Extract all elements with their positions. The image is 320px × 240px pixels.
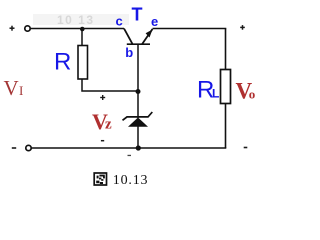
input - terminal circle xyxy=(26,145,31,150)
zener cathode bar with bent ends xyxy=(123,112,153,120)
svg-text:T: T xyxy=(132,5,143,25)
svg-text:10.13: 10.13 xyxy=(113,173,149,188)
bottom rail xyxy=(32,147,227,149)
svg-text:I: I xyxy=(19,83,23,98)
svg-text:L: L xyxy=(212,87,219,101)
svg-text:e: e xyxy=(151,14,158,29)
zener diode VZ xyxy=(137,91,139,118)
node base/zener junction xyxy=(136,89,141,94)
svg-text:z: z xyxy=(105,117,112,133)
svg-text:c: c xyxy=(116,13,123,28)
resistor RL xyxy=(221,70,231,104)
output + sign xyxy=(240,25,245,30)
input - terminal sign xyxy=(12,147,16,149)
wire R top lead xyxy=(81,29,83,46)
svg-text:10 13: 10 13 xyxy=(57,13,95,27)
svg-text:R: R xyxy=(54,49,71,76)
svg-text:V: V xyxy=(4,76,19,100)
node top of R xyxy=(80,27,85,32)
output - sign xyxy=(244,147,248,149)
right vertical wire top xyxy=(225,29,227,70)
input + terminal circle xyxy=(25,26,30,31)
svg-text:o: o xyxy=(249,87,256,102)
zener Vz plus sign xyxy=(100,95,105,100)
watermark ghost xyxy=(33,13,129,27)
node bottom of zener xyxy=(136,145,141,150)
zener Vz minus sign xyxy=(101,140,104,142)
transistor T emitter diagonal with arrow xyxy=(142,29,153,44)
right vertical wire bottom xyxy=(225,104,227,149)
svg-text:b: b xyxy=(125,45,133,60)
wire R bottom lead xyxy=(82,79,138,91)
resistor R xyxy=(78,46,88,80)
wire top rail left (collector side) xyxy=(31,28,125,30)
caption: character 图 drawn xyxy=(94,173,106,185)
zener triangle (anode, pointing up) xyxy=(128,118,148,127)
wire top rail right (emitter side) xyxy=(153,28,227,30)
input + terminal sign xyxy=(10,26,15,31)
artifact dash under rail xyxy=(128,155,132,156)
transistor T collector diagonal xyxy=(124,29,133,45)
wire base down xyxy=(137,44,139,91)
transistor T base bar xyxy=(127,43,150,45)
